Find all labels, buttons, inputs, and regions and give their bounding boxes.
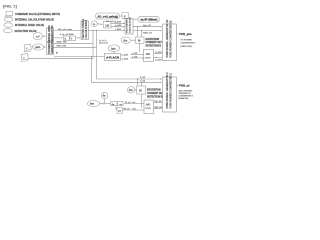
svg-text:VECTOR CONTRL: VECTOR CONTRL xyxy=(83,18,85,38)
wire box N to TN with labels xyxy=(111,23,125,27)
legend oval detection xyxy=(4,28,13,32)
svg-text:q_AD1: q_AD1 xyxy=(115,24,122,27)
svg-text:d_AD: d_AD xyxy=(132,52,138,55)
svg-text:(SAMPLE): (SAMPLE) xyxy=(179,97,189,100)
label SAM_TIM xyxy=(57,41,67,44)
box K1 xyxy=(111,101,118,105)
label t* near T2 xyxy=(56,52,58,55)
wire L5 Iq/n_U1 to converter 1 xyxy=(133,26,162,28)
svg-text:INTERNAL CALCULATION VALUE: INTERNAL CALCULATION VALUE xyxy=(15,19,54,22)
legend text command value xyxy=(15,13,60,16)
circle Gm2 xyxy=(127,87,134,93)
svg-text:C_AD1: C_AD1 xyxy=(155,51,162,54)
box M2 xyxy=(137,86,146,94)
wire TN to filter oval xyxy=(133,18,138,20)
junction dot y82.3 xyxy=(141,82,142,83)
box N (1/2) xyxy=(104,22,112,29)
svg-text:AD_volt_g: AD_volt_g xyxy=(106,20,117,23)
svg-text:AD_volt_gain: AD_volt_gain xyxy=(58,28,73,31)
label PWM_ad xyxy=(179,85,190,88)
wire Gm2 to M2 xyxy=(135,89,137,91)
svg-text:uw: uw xyxy=(118,111,121,113)
legend text internal fixed xyxy=(15,24,44,27)
box K3 xyxy=(117,108,122,114)
wire oval to M1 xyxy=(131,39,135,41)
svg-text:DETECTION B: DETECTION B xyxy=(146,46,162,48)
svg-text:CALCULATION B: CALCULATION B xyxy=(85,19,88,38)
svg-text:CALC BLOCK1: CALC BLOCK1 xyxy=(129,17,132,33)
wire L4 PAR_TIM xyxy=(54,46,97,48)
svg-text:FOR POWER CONVERTER 2: FOR POWER CONVERTER 2 xyxy=(169,73,173,109)
svg-text:PAR_TIM: PAR_TIM xyxy=(57,45,67,48)
label above y79 wire xyxy=(140,77,146,79)
wire L2 d_Iq_ref xyxy=(54,37,81,39)
label above y82.3 wire xyxy=(140,81,146,83)
wire key A to gain oval xyxy=(32,45,34,48)
block VECTOR control (tall, rotated text) xyxy=(81,21,89,40)
svg-text:1/2: 1/2 xyxy=(105,23,109,27)
wire down to K3 xyxy=(116,106,117,110)
key icon A (external input to gain oval) xyxy=(23,44,31,52)
label IU1_AD IW1_AD xyxy=(155,100,163,109)
svg-text:DETECTION VALUE: DETECTION VALUE xyxy=(15,30,37,33)
svg-text:AD_volt_gain(g): AD_volt_gain(g) xyxy=(98,16,119,19)
svg-text:Iqm: Iqm xyxy=(111,46,116,50)
label IU_ad xyxy=(125,102,136,104)
svg-text:CURRENT DET: CURRENT DET xyxy=(146,42,163,44)
block power converter 1 (tall rotated text) xyxy=(163,24,177,61)
svg-text:C_AD2: C_AD2 xyxy=(122,58,129,61)
block A/D converter 2 xyxy=(144,100,154,114)
svg-text:A/D CONVERT: A/D CONVERT xyxy=(179,89,194,92)
wire drop to M1 box xyxy=(138,27,142,37)
text ad converter trigger rows xyxy=(179,89,194,100)
wire M1 down xyxy=(139,44,141,53)
svg-text:q_AD: q_AD xyxy=(132,55,138,58)
circle omega* (speed command) xyxy=(33,33,42,40)
wire K1-K2 xyxy=(116,103,119,105)
svg-text:COMMAND VALUE (EXTERNAL INPUT): COMMAND VALUE (EXTERNAL INPUT) xyxy=(15,13,60,16)
wire M2 down xyxy=(141,94,143,108)
svg-text:IW1_AD: IW1_AD xyxy=(155,106,163,109)
text excitation current detection (top) xyxy=(146,38,163,48)
wire K2 to A/D2 xyxy=(124,103,144,105)
oval theta_wc xyxy=(88,100,100,106)
svg-text:CONV: CONV xyxy=(145,57,151,59)
block A/D converter 1 xyxy=(144,50,154,62)
svg-text:(internal): (internal) xyxy=(99,42,108,45)
svg-text:IW_ad: IW_ad xyxy=(124,108,131,110)
small box SB1 xyxy=(64,36,70,41)
svg-text:PARAMETER: PARAMETER xyxy=(48,39,51,54)
key icon B (external input to bus) xyxy=(20,54,28,62)
svg-text:CONVERTER 2: CONVERTER 2 xyxy=(181,43,197,45)
text excitation current detection (bottom) xyxy=(147,89,164,99)
box M1 xyxy=(136,37,144,44)
junction dot bus1 xyxy=(91,56,92,57)
label Iq/n_U1 xyxy=(143,25,152,27)
block TN voltage detect (tall narrow, rotated text) xyxy=(125,19,133,35)
label IW_ad xyxy=(124,108,137,110)
wire theta down to junction xyxy=(104,99,106,103)
wire stadium to rounded box xyxy=(120,15,123,17)
label q_AD xyxy=(115,24,123,31)
label under stadium xyxy=(106,20,117,23)
svg-text:t*: t* xyxy=(56,52,58,55)
svg-text:Gm: Gm xyxy=(123,39,127,42)
wire PWM gate out xyxy=(177,33,179,35)
junction x mark xyxy=(104,103,106,105)
label C_AD rows right of d-FLACR xyxy=(122,54,129,61)
svg-text:d-FLACR: d-FLACR xyxy=(106,55,119,59)
svg-text:FOR POWER CONVERTER 1X: FOR POWER CONVERTER 1X xyxy=(169,20,173,57)
svg-text:CONV: CONV xyxy=(145,108,151,110)
label d_Iq_ref xyxy=(60,33,74,36)
svg-text:CURRENT DET: CURRENT DET xyxy=(147,93,164,95)
circle theta xyxy=(101,92,107,98)
svg-text:S: S xyxy=(124,14,126,18)
wire gain oval to block T2 xyxy=(44,46,46,48)
svg-text:A/D: A/D xyxy=(146,103,151,107)
svg-text:INTERNAL FIXED VALUE: INTERNAL FIXED VALUE xyxy=(15,24,44,27)
wires A/D1 to converter 1 xyxy=(154,54,163,58)
small box SB2 xyxy=(70,36,76,41)
svg-text:A/D: A/D xyxy=(146,52,151,56)
wire PWM ad out xyxy=(177,85,179,87)
label PAR_TIM xyxy=(57,45,67,48)
legend key symbol (command value) xyxy=(5,12,13,17)
block T1 speed command generator (rotated text) xyxy=(47,28,54,42)
block d-FLACR xyxy=(105,54,121,61)
rounded box RB xyxy=(122,13,129,19)
block T2 parameter generator (rotated text) xyxy=(47,43,54,55)
wire L3 SAM_TIM xyxy=(54,42,94,44)
legend text internal calculation xyxy=(15,19,54,22)
junction dot L1-vA xyxy=(92,30,93,31)
junction dot L1-vB xyxy=(96,30,97,31)
svg-text:GENERATOR: GENERATOR xyxy=(51,39,54,54)
svg-text:VOLT DETECT: VOLT DETECT xyxy=(127,17,129,33)
svg-text:DETECTION B: DETECTION B xyxy=(147,96,163,98)
svg-text:C_AD2: C_AD2 xyxy=(155,58,162,61)
svg-text:t_AD1: t_AD1 xyxy=(115,28,122,31)
svg-text:NAG_U1: NAG_U1 xyxy=(143,31,153,34)
svg-text:SAM_TIM: SAM_TIM xyxy=(57,41,67,44)
stadium oval Iq-IP filter xyxy=(138,16,160,22)
wire drops to M2 xyxy=(138,79,142,86)
bus1 wire to d-FLACR xyxy=(54,55,105,57)
svg-text:Iq/n_U1: Iq/n_U1 xyxy=(143,25,152,27)
wire omega-c to box N xyxy=(97,23,102,26)
svg-text:SPEED CMND: SPEED CMND xyxy=(49,25,51,41)
oval Cgm (feeds M1) xyxy=(121,37,131,43)
legend oval internal fixed xyxy=(4,23,13,27)
wire omega* to block T1 xyxy=(42,35,45,37)
legend oval internal calculation xyxy=(4,17,13,21)
wire junction to K1 xyxy=(105,103,110,105)
wire vC from bus1 down then right to converter 2 xyxy=(92,56,162,82)
wire oval to junction arrow xyxy=(100,103,104,105)
wire vA vertical xyxy=(92,30,94,58)
wires A/D2 to converter 2 xyxy=(154,103,163,109)
svg-text:IU1_AD: IU1_AD xyxy=(155,100,163,103)
wire L1 AD_volt_gain xyxy=(54,29,126,31)
box K2 xyxy=(118,101,123,105)
junction dot L5 xyxy=(137,26,138,27)
circle omega-c xyxy=(91,21,97,27)
svg-text:(GATE SIG): (GATE SIG) xyxy=(181,45,192,48)
wire L6 NAG_U1 xyxy=(133,30,162,32)
label NAG_U1 xyxy=(143,31,153,34)
svg-text:PWM SIGNAL GENERATOR 2: PWM SIGNAL GENERATOR 2 xyxy=(165,72,169,109)
gain oval xyxy=(33,44,44,50)
text rows small (Iq ref area) xyxy=(99,40,108,45)
block power converter 2 (tall rotated text) xyxy=(163,77,177,112)
svg-text:PWM_ad: PWM_ad xyxy=(179,85,190,88)
title FIG.1 xyxy=(3,4,17,9)
label PWM_gate xyxy=(179,33,192,36)
svg-text:EXCITATION: EXCITATION xyxy=(147,89,161,92)
svg-text:PWM_gate: PWM_gate xyxy=(179,33,192,36)
label C_AD1 out xyxy=(155,51,162,61)
bus2 wire from key B xyxy=(29,58,94,60)
oval Iqm xyxy=(108,45,120,52)
svg-text:Gm: Gm xyxy=(129,89,133,92)
label d_AD q_AD left of A/D1 xyxy=(132,52,138,59)
wire K3 to A/D2 xyxy=(122,109,144,111)
svg-text:Iq-IP (filter): Iq-IP (filter) xyxy=(141,19,158,22)
svg-text:TO POWER: TO POWER xyxy=(181,40,193,42)
svg-text:gain: gain xyxy=(35,45,41,49)
wire Iqm down to d-FLACR xyxy=(113,52,115,54)
wire vB vertical then right to converter 2 xyxy=(97,30,162,79)
wires d-FLACR to A/D1 xyxy=(130,55,144,59)
svg-text:two: two xyxy=(90,103,95,106)
text to power converter rows xyxy=(181,40,197,48)
stadium oval AD_volt_gain xyxy=(96,13,120,19)
legend text detection xyxy=(15,30,37,33)
svg-text:X_U2: X_U2 xyxy=(140,77,146,79)
svg-text:PWM SIGNAL GENERATOR 1X: PWM SIGNAL GENERATOR 1X xyxy=(165,19,169,57)
svg-text:EXCITATION: EXCITATION xyxy=(146,38,160,41)
svg-text:C_AD1: C_AD1 xyxy=(122,54,129,57)
svg-text:GENERATION: GENERATION xyxy=(51,25,54,40)
svg-text:IU_ad: IU_ad xyxy=(125,102,131,104)
label AD_volt_gain xyxy=(58,28,73,31)
junction dot L6 xyxy=(141,30,142,31)
label d_AD xyxy=(115,21,122,24)
svg-text:[FIG. 1]: [FIG. 1] xyxy=(3,4,17,9)
junction dot y79 xyxy=(137,78,138,79)
